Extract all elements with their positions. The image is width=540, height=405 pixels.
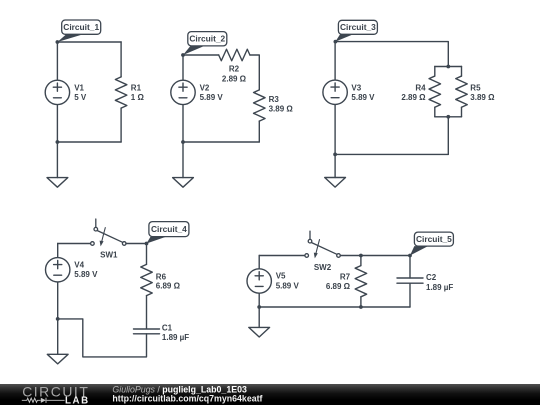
wire right drop circuit 3 <box>447 117 449 155</box>
flag label Circuit_1 <box>57 20 100 42</box>
node Circuit_3 (junction dot) <box>334 40 338 44</box>
wire switch to C2 node <box>340 255 410 257</box>
wire C1 bottom loop <box>58 319 147 357</box>
wire parallel top bar <box>435 66 462 68</box>
wire bottom rail circuit 2 <box>183 141 259 143</box>
ground circuit 1 <box>47 178 68 188</box>
flag label Circuit_3 <box>335 20 377 41</box>
voltage source V1 <box>45 42 69 142</box>
switch SW2 <box>305 231 340 258</box>
voltage source V5 <box>247 256 271 308</box>
wire V5 to switch <box>259 255 305 257</box>
wire switch to node circuit 4 <box>126 243 147 245</box>
wire ground stem circuit 1 <box>56 142 58 178</box>
flag label Circuit_4 <box>147 222 189 244</box>
node bottom junction circuit 1 <box>56 140 60 144</box>
wire bottom rail circuit 5 <box>259 306 410 308</box>
label V4 5.89 V <box>74 260 98 279</box>
resistor R5 <box>456 67 468 117</box>
label C1 1.89 uF <box>162 324 189 342</box>
voltage source V4 <box>46 244 70 319</box>
label V3 5.89 V <box>351 83 375 102</box>
node Circuit_2 (junction dot) <box>181 53 185 57</box>
logo resistor-diode squiggle <box>22 398 65 403</box>
wire top rail left circuit 2 <box>183 54 219 56</box>
ground circuit 4 <box>47 354 68 364</box>
wire ground stem circuit 4 <box>57 319 59 354</box>
capacitor C1 <box>134 329 160 334</box>
resistor R2 (horizontal) <box>219 49 250 61</box>
node Circuit_1 (junction dot) <box>56 40 60 44</box>
wire ground stem circuit 5 <box>258 307 260 327</box>
wire V4 to switch <box>58 243 91 245</box>
node left junction circuit 4 <box>56 317 60 321</box>
wire top right corner circuit 2 <box>250 55 259 90</box>
svg-text:http://circuitlab.com/cq7myn64: http://circuitlab.com/cq7myn64keatf <box>112 394 262 404</box>
wire top rail circuit 1 <box>57 41 121 43</box>
svg-text:LAB: LAB <box>65 395 90 405</box>
ground circuit 3 <box>325 178 346 188</box>
voltage source V3 <box>323 42 347 155</box>
voltage source V2 <box>171 55 195 142</box>
label V1 5 V <box>74 83 87 102</box>
resistor R1 <box>115 42 127 142</box>
node Circuit_5 (junction dot) <box>408 254 412 258</box>
label R7 6.89 ohm <box>326 272 351 291</box>
label R5 3.89 ohm <box>470 84 495 103</box>
label V5 5.89 V <box>276 272 300 291</box>
label R1 1 ohm <box>131 83 145 102</box>
wire ground stem circuit 2 <box>182 142 184 178</box>
resistor R3 <box>254 90 266 142</box>
capacitor C2 <box>397 256 423 308</box>
ground circuit 5 <box>249 327 270 337</box>
label C2 1.89 uF <box>426 273 453 292</box>
resistor R4 <box>429 67 441 117</box>
node parallel top junction <box>446 65 450 69</box>
wire parallel bottom bar <box>435 116 462 118</box>
ground circuit 2 <box>173 178 194 188</box>
wire top rail circuit 3 <box>335 42 448 67</box>
node parallel bottom junction <box>446 115 450 119</box>
node R7 bottom junction <box>359 305 363 309</box>
wire ground stem circuit 3 <box>334 154 336 177</box>
node bottom junction circuit 2 <box>181 140 185 144</box>
label R6 6.89 ohm <box>156 272 181 290</box>
wire bottom rail circuit 1 <box>57 141 121 143</box>
node bottom junction circuit 3 <box>333 153 337 157</box>
node R7 top junction <box>359 254 363 258</box>
label R4 2.89 ohm <box>401 84 426 103</box>
switch SW1 <box>91 219 126 246</box>
label R2 2.89 ohm <box>222 64 247 83</box>
label R3 3.89 ohm <box>269 95 294 113</box>
resistor R7 <box>355 256 367 308</box>
node Circuit_4 (junction dot) <box>145 242 149 246</box>
flag label Circuit_2 <box>183 32 227 55</box>
node V5 bottom junction <box>257 305 261 309</box>
label V2 5.89 V <box>200 83 224 102</box>
wire bottom rail circuit 3 <box>335 153 448 155</box>
resistor R6 <box>141 244 153 329</box>
flag label Circuit_5 <box>410 232 453 255</box>
